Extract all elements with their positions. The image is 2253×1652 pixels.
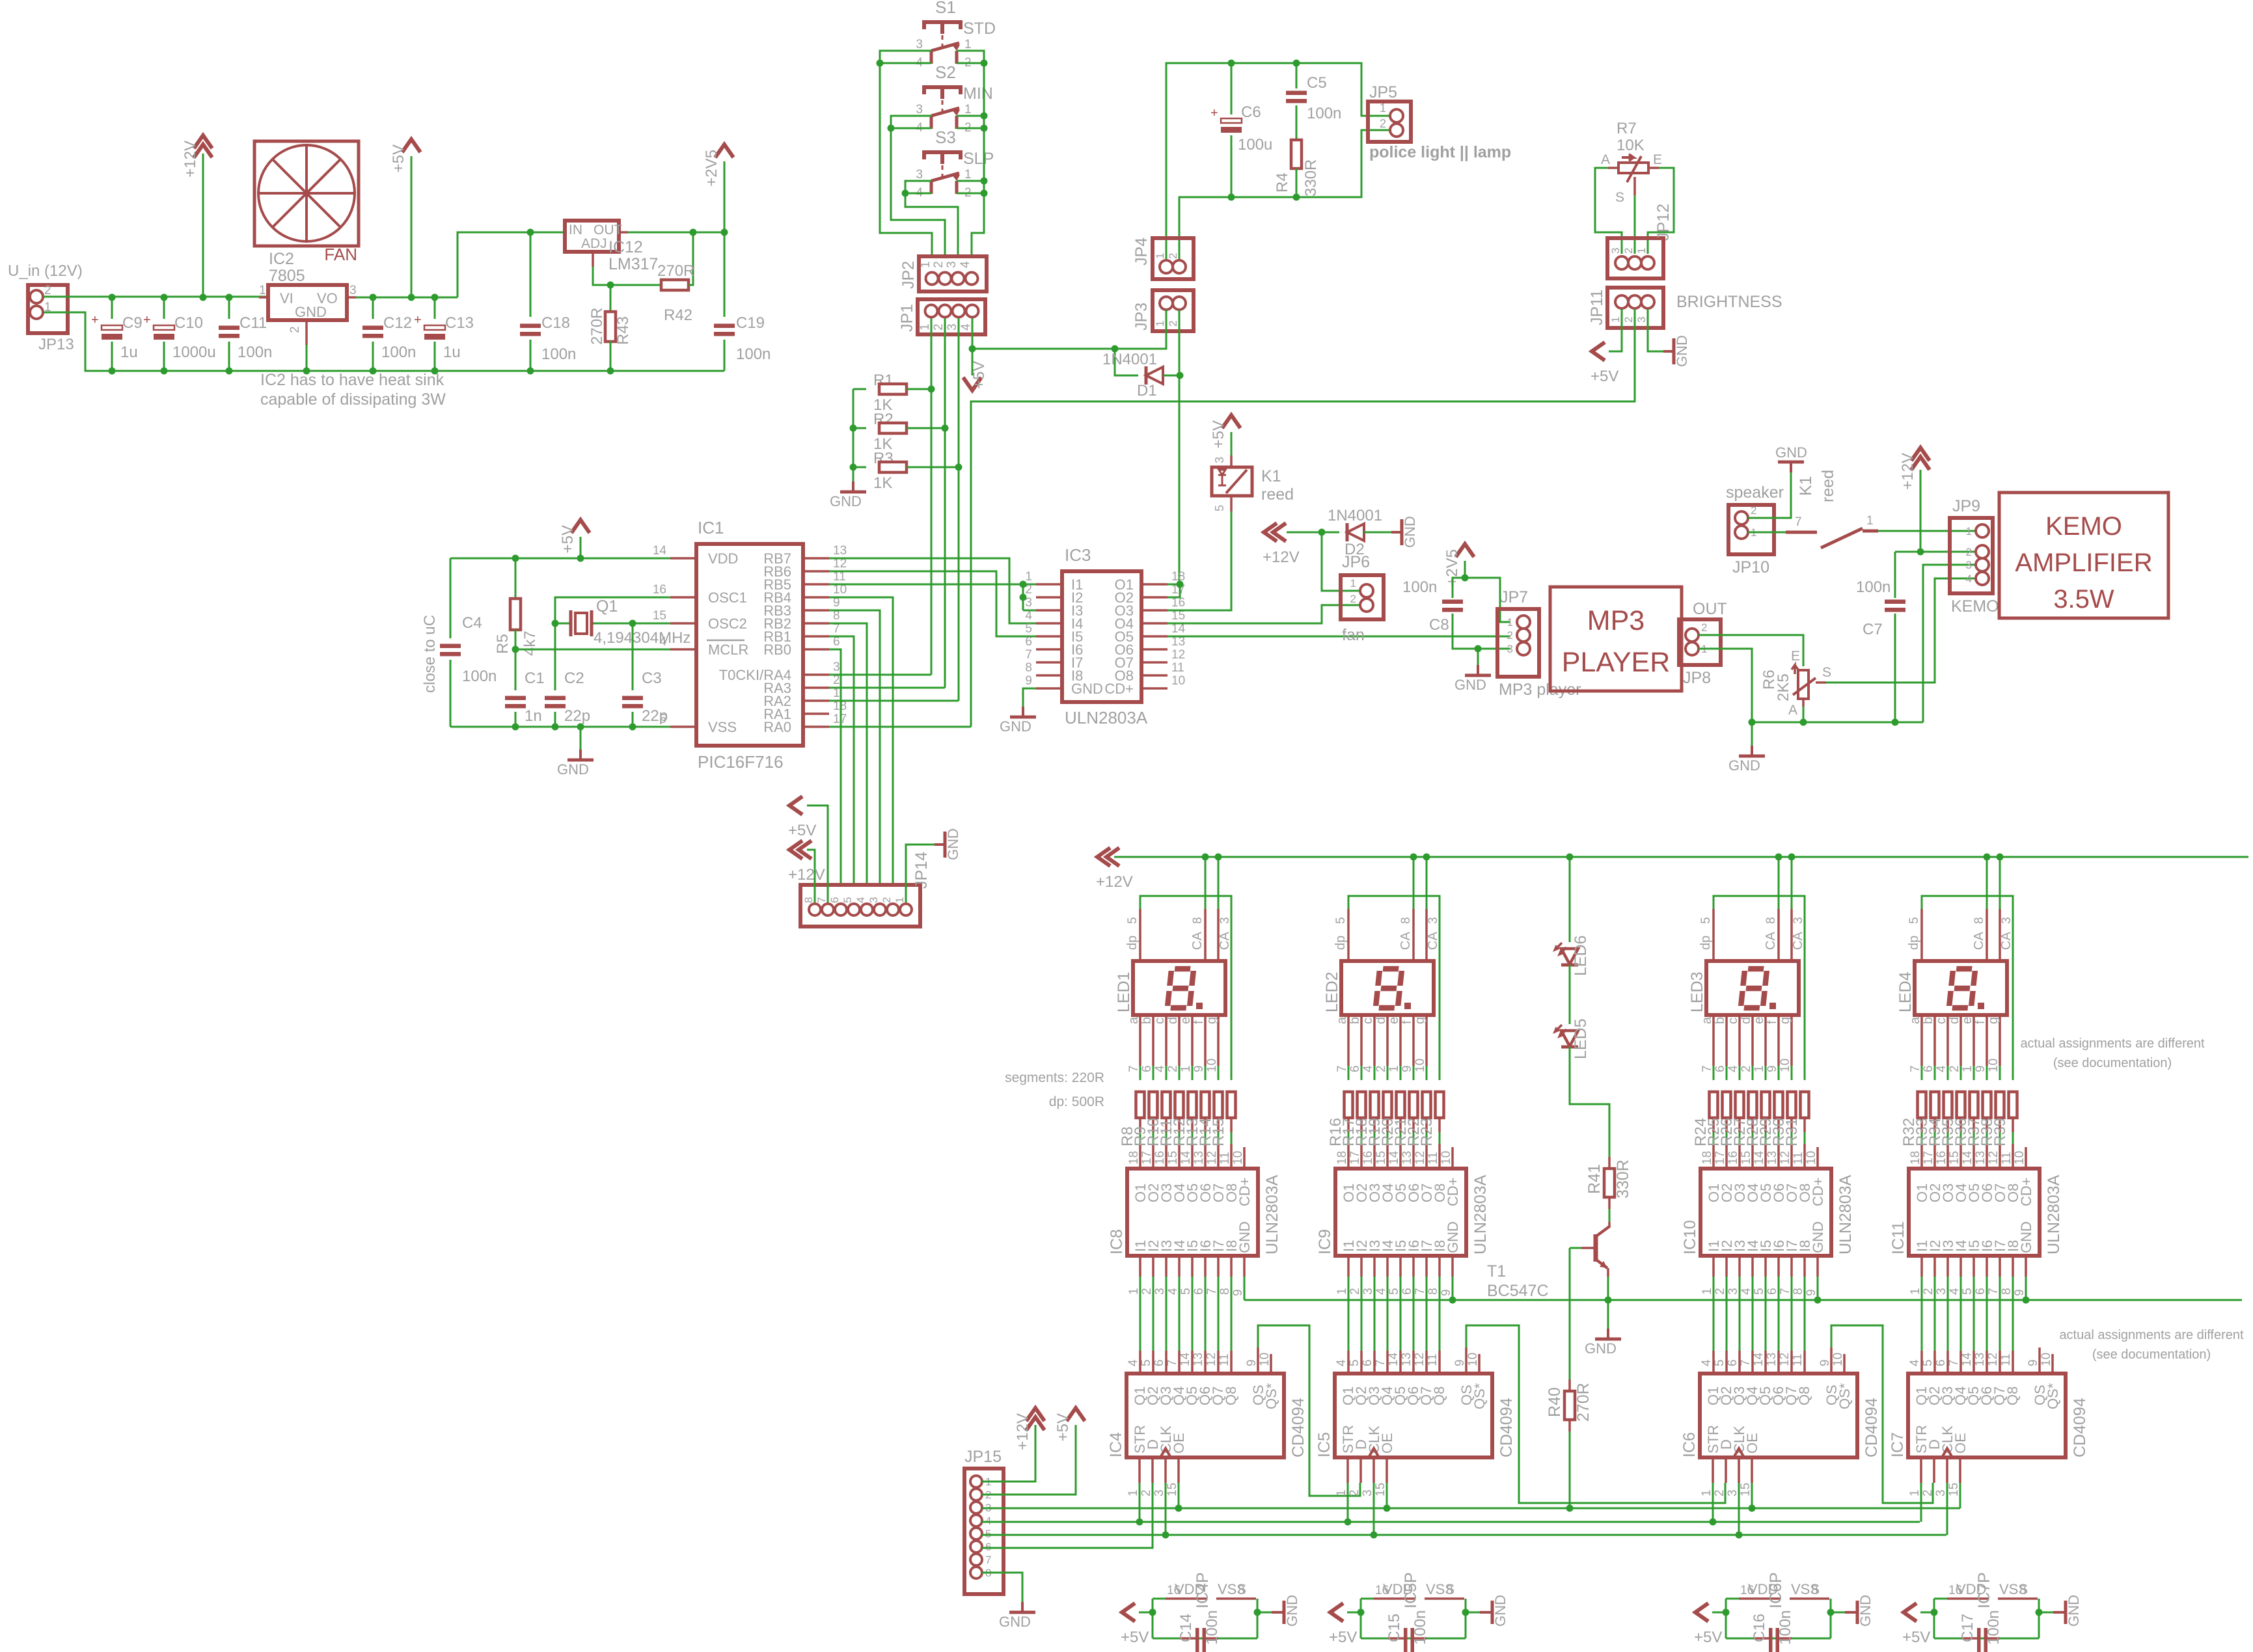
svg-text:22p: 22p xyxy=(642,707,668,725)
svg-text:9: 9 xyxy=(1245,1359,1259,1366)
svg-text:5: 5 xyxy=(1025,622,1032,636)
svg-text:CD+: CD+ xyxy=(2018,1177,2034,1206)
svg-text:IC1: IC1 xyxy=(698,518,724,537)
svg-text:OE: OE xyxy=(1952,1433,1969,1454)
wire LM317 out xyxy=(619,231,628,234)
wire reed to JP9 pin1 xyxy=(1878,530,1976,532)
resistor network R16-R23 xyxy=(1345,1092,1353,1118)
svg-text:7: 7 xyxy=(1700,1065,1714,1072)
svg-text:5: 5 xyxy=(1140,1359,1153,1366)
ground IC7P xyxy=(2039,1612,2053,1614)
wire U_in xyxy=(44,296,111,298)
svg-text:+5V: +5V xyxy=(559,525,577,553)
wire JP10 pin2 to GND xyxy=(1748,472,1791,518)
svg-text:12: 12 xyxy=(1413,1353,1427,1366)
svg-text:1u: 1u xyxy=(120,344,138,361)
svg-text:f: f xyxy=(1400,1020,1414,1024)
svg-text:BC547C: BC547C xyxy=(1487,1282,1549,1300)
svg-text:2: 2 xyxy=(1740,1065,1753,1072)
svg-text:8: 8 xyxy=(1811,1584,1818,1597)
wire RA2 from JP1 pin3 xyxy=(829,700,959,702)
wire OSC2 xyxy=(633,623,670,625)
svg-text:3: 3 xyxy=(1025,596,1032,610)
svg-text:14: 14 xyxy=(1179,1352,1192,1366)
ground R123 xyxy=(852,481,854,492)
svg-text:4: 4 xyxy=(1935,1065,1948,1072)
svg-text:3: 3 xyxy=(1727,1288,1740,1295)
svg-text:3: 3 xyxy=(1966,559,1972,571)
svg-text:7805: 7805 xyxy=(269,267,305,285)
wire JP15 pin6 data to IC4 xyxy=(982,1483,1153,1548)
svg-text:6: 6 xyxy=(1348,1065,1362,1072)
wire JP11 pin1 +5V xyxy=(1609,309,1622,351)
svg-text:3: 3 xyxy=(1934,1489,1948,1496)
svg-text:7: 7 xyxy=(1413,1288,1427,1295)
wire JP1 pin2 down xyxy=(944,318,946,688)
svg-text:1: 1 xyxy=(964,168,972,182)
svg-text:1: 1 xyxy=(1154,253,1166,259)
svg-text:b: b xyxy=(1921,1017,1935,1024)
svg-text:CD4094: CD4094 xyxy=(1497,1398,1516,1457)
svg-text:CD4094: CD4094 xyxy=(1289,1398,1307,1457)
capacitor C9 xyxy=(111,297,113,319)
block MP3 PLAYER xyxy=(1550,587,1682,691)
wire JP1 pin3 down xyxy=(958,318,960,701)
svg-text:6: 6 xyxy=(1714,1065,1727,1072)
svg-text:GND: GND xyxy=(1071,681,1103,697)
svg-text:16: 16 xyxy=(1153,1151,1167,1165)
svg-text:GND: GND xyxy=(1236,1221,1253,1253)
display LED1 7-segment xyxy=(1133,961,1225,1015)
svg-text:LED1: LED1 xyxy=(1115,971,1133,1012)
wire MCLR xyxy=(515,649,670,651)
svg-text:2: 2 xyxy=(881,897,893,903)
connector JP14 xyxy=(800,885,920,927)
svg-text:100n: 100n xyxy=(462,668,497,685)
svg-text:Q1: Q1 xyxy=(596,597,618,616)
svg-text:11: 11 xyxy=(1218,1353,1231,1366)
wire T1 emitter to gnd rail xyxy=(1607,1268,1609,1277)
svg-text:CD+: CD+ xyxy=(1104,681,1134,697)
svg-text:1: 1 xyxy=(1961,1065,1974,1072)
svg-text:1n: 1n xyxy=(525,707,542,725)
svg-text:4: 4 xyxy=(1025,609,1032,623)
svg-text:ULN2803A: ULN2803A xyxy=(1263,1174,1281,1254)
wire pot A to JP12 pin3 xyxy=(1595,168,1622,254)
svg-text:12: 12 xyxy=(1413,1151,1427,1165)
driver IC9 ULN2803A xyxy=(1335,1169,1466,1256)
svg-text:7: 7 xyxy=(1335,1065,1349,1072)
svg-text:8: 8 xyxy=(2000,1288,2014,1295)
svg-text:QS*: QS* xyxy=(1263,1383,1279,1409)
wire R41 to T1 collector xyxy=(1609,1209,1611,1222)
svg-text:C19: C19 xyxy=(736,314,765,332)
connector JP13 xyxy=(28,285,68,333)
svg-text:2: 2 xyxy=(932,323,946,331)
wire D2 to JP6 pin1 xyxy=(1322,532,1360,591)
svg-text:6: 6 xyxy=(1025,635,1032,649)
wire RB3 to JP14 pin3 xyxy=(829,610,880,885)
svg-text:a: a xyxy=(1700,1016,1714,1024)
svg-text:5: 5 xyxy=(1961,1288,1974,1295)
svg-text:2: 2 xyxy=(1948,1065,1961,1072)
svg-text:100u: 100u xyxy=(1238,136,1272,154)
svg-text:U_in (12V): U_in (12V) xyxy=(8,262,83,280)
svg-text:7: 7 xyxy=(1739,1359,1753,1366)
svg-text:2: 2 xyxy=(1380,117,1386,130)
svg-text:c: c xyxy=(1726,1018,1740,1024)
svg-text:GND: GND xyxy=(295,304,327,320)
svg-text:CD4094: CD4094 xyxy=(2071,1398,2089,1457)
svg-text:10: 10 xyxy=(1205,1059,1219,1072)
svg-text:100n: 100n xyxy=(238,344,272,361)
svg-text:1N4001: 1N4001 xyxy=(1102,351,1157,368)
power block IC5P with capacitor C15 xyxy=(1360,1599,1362,1638)
svg-text:+5V: +5V xyxy=(1329,1629,1357,1646)
svg-text:6: 6 xyxy=(1934,1359,1948,1366)
svg-text:14: 14 xyxy=(1752,1352,1766,1366)
svg-text:12: 12 xyxy=(1986,1353,2000,1366)
svg-text:IC2 has to have heat sink: IC2 has to have heat sink xyxy=(260,371,444,389)
shift register IC7 CD4094 xyxy=(1908,1374,2066,1457)
wire IC7 STR CLK OE to bus xyxy=(1920,1483,1922,1522)
svg-text:E: E xyxy=(1653,152,1662,167)
svg-text:8: 8 xyxy=(2019,1584,2027,1597)
svg-text:capable of dissipating 3W: capable of dissipating 3W xyxy=(260,390,446,409)
svg-text:IC4: IC4 xyxy=(1107,1432,1125,1457)
wire LED1 CA pins to +12V xyxy=(1205,857,1207,909)
svg-text:1u: 1u xyxy=(443,344,461,361)
svg-text:+5V: +5V xyxy=(788,822,816,839)
wire S3 left to JP2 pin3 xyxy=(905,181,958,256)
svg-text:GND: GND xyxy=(557,761,589,778)
power block IC6P with capacitor C16 xyxy=(1725,1599,1727,1638)
svg-text:11: 11 xyxy=(1171,661,1184,675)
svg-text:2: 2 xyxy=(1921,1489,1935,1496)
svg-text:11: 11 xyxy=(2000,1152,2014,1165)
svg-text:1: 1 xyxy=(964,103,972,116)
svg-text:3: 3 xyxy=(1609,248,1622,254)
svg-text:4: 4 xyxy=(1740,1288,1753,1295)
svg-text:Q8: Q8 xyxy=(1431,1387,1447,1405)
svg-text:LED3: LED3 xyxy=(1688,971,1706,1012)
wire OSC1 xyxy=(555,597,670,623)
power arrow +12V kemo xyxy=(1911,448,1930,461)
svg-text:7: 7 xyxy=(1947,1359,1961,1366)
svg-text:e: e xyxy=(1179,1017,1193,1024)
svg-text:10: 10 xyxy=(1805,1151,1818,1165)
svg-text:ULN2803A: ULN2803A xyxy=(1837,1174,1855,1254)
svg-text:JP12: JP12 xyxy=(1654,204,1673,241)
svg-text:2K5: 2K5 xyxy=(1775,673,1792,701)
svg-text:16: 16 xyxy=(1935,1151,1948,1165)
wire O3 to relay xyxy=(1167,511,1231,610)
svg-text:GND: GND xyxy=(1674,335,1690,367)
svg-text:GND: GND xyxy=(830,493,862,509)
svg-text:b: b xyxy=(1713,1017,1727,1024)
svg-text:8: 8 xyxy=(1973,917,1986,924)
svg-text:3: 3 xyxy=(1427,917,1440,924)
wire LED3 segment pins xyxy=(1712,1015,1715,1066)
svg-text:+12V: +12V xyxy=(1899,453,1917,490)
svg-text:8: 8 xyxy=(1446,1584,1453,1597)
wire IC8 pin9 to rail xyxy=(1244,1277,1246,1300)
capacitor C11 xyxy=(228,297,230,319)
svg-text:C10: C10 xyxy=(174,314,203,332)
wire JP15 pin1 +12V xyxy=(982,1425,1035,1482)
svg-text:R23: R23 xyxy=(1418,1118,1436,1146)
svg-text:JP9: JP9 xyxy=(1952,497,1980,515)
svg-text:d: d xyxy=(1374,1017,1388,1024)
svg-text:9: 9 xyxy=(1192,1065,1206,1072)
svg-text:10: 10 xyxy=(1440,1151,1453,1165)
connector JP3 xyxy=(1153,290,1194,331)
svg-text:4: 4 xyxy=(1727,1065,1740,1072)
power arrow +5V IC6P xyxy=(1712,1612,1726,1614)
connector JP6 fan xyxy=(1341,575,1384,619)
diode D1 1N4001 xyxy=(1115,349,1138,375)
svg-text:LED5: LED5 xyxy=(1572,1018,1590,1059)
wire JP1 pin1 down xyxy=(931,318,933,675)
svg-text:2: 2 xyxy=(1140,1288,1154,1295)
svg-text:5: 5 xyxy=(1713,1359,1727,1366)
svg-text:ULN2803A: ULN2803A xyxy=(1471,1174,1490,1254)
svg-text:4: 4 xyxy=(1153,1065,1167,1072)
relay K1 reed coil xyxy=(1212,467,1252,496)
display LED4 7-segment xyxy=(1915,961,2007,1015)
svg-text:close to uC: close to uC xyxy=(421,615,439,693)
svg-text:3: 3 xyxy=(867,897,880,903)
svg-text:14: 14 xyxy=(1960,1352,1974,1366)
svg-text:16: 16 xyxy=(1361,1151,1375,1165)
svg-text:JP1: JP1 xyxy=(898,304,916,332)
wire RA0 brightness xyxy=(829,726,971,728)
svg-text:10: 10 xyxy=(2013,1151,2027,1165)
ground IC6P xyxy=(1831,1612,1845,1614)
wire JP15 pin4 STR bus xyxy=(982,1521,1920,1523)
svg-text:+5V: +5V xyxy=(1054,1413,1072,1441)
svg-text:R42: R42 xyxy=(664,306,692,324)
svg-text:3: 3 xyxy=(1153,1489,1166,1496)
svg-text:+12V: +12V xyxy=(1263,548,1300,566)
svg-text:(see documentation): (see documentation) xyxy=(2092,1347,2211,1362)
svg-text:E: E xyxy=(1791,649,1800,664)
svg-text:3: 3 xyxy=(1218,917,1232,924)
wire JP15 pin8 GND xyxy=(982,1573,1022,1602)
svg-text:+: + xyxy=(1210,106,1218,120)
svg-text:15: 15 xyxy=(1374,1483,1387,1496)
wire JP1 pin4 +5V xyxy=(972,318,974,375)
svg-text:C9: C9 xyxy=(122,314,143,332)
svg-text:IC6P: IC6P xyxy=(1767,1572,1785,1608)
wire S1 left to JP2 pin1 xyxy=(880,51,932,256)
svg-text:OUT: OUT xyxy=(1693,600,1727,618)
wire lamp bottom rail xyxy=(1179,130,1390,260)
svg-text:1: 1 xyxy=(1908,1489,1922,1496)
svg-text:1: 1 xyxy=(1866,514,1874,528)
svg-text:14: 14 xyxy=(1753,1150,1766,1165)
svg-text:RA0: RA0 xyxy=(763,719,791,735)
wire RB7 to IC3 I4 xyxy=(829,558,1036,623)
svg-text:CA: CA xyxy=(1791,932,1805,950)
wire ADJ node xyxy=(592,252,594,267)
LED6 xyxy=(1569,857,1571,942)
svg-text:7: 7 xyxy=(1987,1288,2000,1295)
svg-text:R7: R7 xyxy=(1617,120,1637,137)
svg-text:1: 1 xyxy=(1335,1288,1349,1295)
svg-text:270R: 270R xyxy=(1574,1383,1592,1422)
connector JP12 xyxy=(1607,238,1663,278)
wire T1 base to R40 xyxy=(1570,1247,1581,1249)
svg-text:9: 9 xyxy=(1766,1065,1779,1072)
capacitor C6 100u xyxy=(1231,63,1233,115)
svg-text:3: 3 xyxy=(2000,917,2014,924)
svg-text:10: 10 xyxy=(1171,674,1185,688)
wire JP15 pin2 +5V xyxy=(982,1425,1076,1495)
svg-text:+5V: +5V xyxy=(1902,1629,1930,1646)
svg-text:OSC2: OSC2 xyxy=(708,616,747,632)
svg-text:IC6: IC6 xyxy=(1680,1432,1699,1457)
wire +12V to JP9 pin2 xyxy=(1920,551,1976,553)
svg-text:5: 5 xyxy=(1753,1288,1766,1295)
svg-text:CA: CA xyxy=(1764,932,1778,950)
svg-text:9: 9 xyxy=(1400,1065,1414,1072)
svg-text:16: 16 xyxy=(1727,1151,1740,1165)
svg-text:2: 2 xyxy=(1374,1065,1388,1072)
svg-text:13: 13 xyxy=(833,544,847,558)
svg-text:2: 2 xyxy=(1350,593,1356,605)
capacitor C10 xyxy=(163,297,165,319)
svg-text:f: f xyxy=(1973,1020,1987,1024)
svg-text:GND: GND xyxy=(1284,1595,1300,1627)
svg-text:100n: 100n xyxy=(1412,1610,1429,1645)
svg-text:S: S xyxy=(1822,665,1831,680)
svg-text:1: 1 xyxy=(1025,570,1032,584)
svg-text:9: 9 xyxy=(1453,1359,1467,1366)
svg-text:15: 15 xyxy=(653,609,666,623)
voltage regulator IC2 7805 xyxy=(268,285,347,320)
wire JP14 pin1 GND xyxy=(906,845,935,902)
svg-text:7: 7 xyxy=(1909,1065,1922,1072)
svg-text:4: 4 xyxy=(1166,1288,1180,1295)
svg-text:JP10: JP10 xyxy=(1732,558,1769,576)
power rail +12V displays xyxy=(1114,856,2248,858)
svg-text:+5V: +5V xyxy=(1210,420,1227,448)
svg-text:7: 7 xyxy=(1205,1288,1219,1295)
capacitor C3 22p xyxy=(632,623,634,690)
svg-text:R39: R39 xyxy=(1991,1118,2009,1146)
svg-text:8: 8 xyxy=(1399,917,1413,924)
driver IC3 ULN2803A xyxy=(1062,571,1141,702)
svg-text:OE: OE xyxy=(1744,1433,1760,1454)
svg-text:14: 14 xyxy=(1179,1150,1193,1165)
svg-text:6: 6 xyxy=(1153,1359,1166,1366)
svg-text:1: 1 xyxy=(1350,577,1356,589)
svg-text:Q8: Q8 xyxy=(1796,1387,1812,1405)
svg-text:3: 3 xyxy=(1213,457,1226,463)
switch SLP xyxy=(924,152,961,159)
wire LED1 dp loop xyxy=(1139,909,1141,961)
svg-text:5: 5 xyxy=(1387,1288,1401,1295)
svg-text:3: 3 xyxy=(833,660,840,674)
svg-text:VSS: VSS xyxy=(708,719,737,735)
ground audio xyxy=(1751,722,1753,746)
svg-text:ULN2803A: ULN2803A xyxy=(2045,1174,2063,1254)
wire IC5 QS cascade xyxy=(1466,1325,1725,1503)
svg-text:1: 1 xyxy=(1154,321,1166,327)
svg-text:100n: 100n xyxy=(1402,578,1437,596)
svg-text:QS*: QS* xyxy=(1471,1383,1488,1409)
svg-text:KEMO: KEMO xyxy=(1951,597,1999,616)
shift register IC4 CD4094 xyxy=(1126,1374,1284,1457)
svg-text:9: 9 xyxy=(1974,1065,1987,1072)
wire RB5 to IC3 I1 I2 I3 xyxy=(829,584,1036,586)
svg-text:100n: 100n xyxy=(1203,1610,1221,1645)
svg-text:13: 13 xyxy=(1765,1353,1779,1366)
svg-text:GND: GND xyxy=(1445,1221,1461,1253)
capacitor C2 22p xyxy=(554,623,556,690)
svg-text:JP3: JP3 xyxy=(1132,303,1151,331)
svg-text:GND: GND xyxy=(1454,677,1486,693)
svg-text:C6: C6 xyxy=(1241,103,1261,121)
svg-text:15: 15 xyxy=(1166,1151,1180,1165)
svg-text:C3: C3 xyxy=(642,670,662,687)
svg-text:dp: dp xyxy=(1125,936,1140,950)
svg-text:1: 1 xyxy=(918,323,932,331)
wire LED2 dp loop xyxy=(1347,909,1350,961)
svg-text:1: 1 xyxy=(1609,317,1622,323)
resistor R4 330R xyxy=(1291,140,1302,169)
svg-text:JP6: JP6 xyxy=(1342,553,1370,571)
wire LED6 to LED5 xyxy=(1569,965,1571,1024)
svg-text:7: 7 xyxy=(1779,1288,1792,1295)
svg-text:IC7P: IC7P xyxy=(1975,1572,1993,1608)
wire switch right stub xyxy=(957,128,984,129)
svg-text:LED6: LED6 xyxy=(1572,935,1590,976)
svg-text:14: 14 xyxy=(653,544,667,558)
svg-text:CD+: CD+ xyxy=(1445,1177,1461,1206)
svg-text:3: 3 xyxy=(916,168,923,182)
svg-text:3: 3 xyxy=(916,38,923,51)
svg-text:3: 3 xyxy=(916,103,923,116)
svg-text:4k7: 4k7 xyxy=(521,630,539,656)
svg-text:2: 2 xyxy=(1507,629,1513,642)
power arrow +5V relay xyxy=(1231,432,1233,455)
wire RB1 to JP14 pin5 xyxy=(829,636,854,885)
wire IC6 STR CLK OE to bus xyxy=(1712,1483,1714,1522)
svg-text:MCLR: MCLR xyxy=(708,642,748,658)
svg-text:JP2: JP2 xyxy=(899,261,918,289)
svg-text:C5: C5 xyxy=(1307,74,1327,92)
svg-text:18: 18 xyxy=(1909,1151,1922,1165)
svg-text:b: b xyxy=(1348,1017,1362,1024)
svg-text:2: 2 xyxy=(1922,1288,1935,1295)
svg-text:3: 3 xyxy=(945,261,959,268)
svg-text:IC10: IC10 xyxy=(1681,1220,1699,1254)
regulator IC12 LM317 xyxy=(565,221,619,252)
svg-text:C4: C4 xyxy=(462,614,482,632)
wire gnd-feed xyxy=(44,312,724,371)
svg-text:QS*: QS* xyxy=(2045,1383,2061,1409)
fan symbol xyxy=(254,141,359,246)
svg-text:C12: C12 xyxy=(383,314,412,332)
svg-text:7: 7 xyxy=(1127,1065,1141,1072)
svg-text:10: 10 xyxy=(1466,1353,1480,1366)
svg-text:1: 1 xyxy=(1700,1489,1714,1496)
svg-text:fan: fan xyxy=(1342,626,1365,644)
svg-text:R31: R31 xyxy=(1783,1118,1801,1146)
wire JP3 pin2 down to IC3 xyxy=(1179,310,1181,584)
